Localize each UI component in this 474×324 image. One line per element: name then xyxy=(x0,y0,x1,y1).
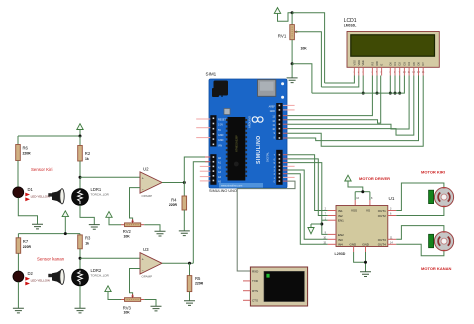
wire xyxy=(291,13,293,25)
pin stub xyxy=(200,180,211,182)
wire xyxy=(18,198,37,224)
wire LDR2 node to U3 plus input xyxy=(80,257,140,259)
wire xyxy=(291,40,293,64)
svg-text:Sensor Kiri: Sensor Kiri xyxy=(31,167,52,172)
wire VDD xyxy=(321,76,358,88)
op-amp U3 xyxy=(140,247,162,279)
svg-text:SIM1: SIM1 xyxy=(206,72,217,77)
svg-text:TORCH_LDR: TORCH_LDR xyxy=(91,193,110,197)
svg-text:IN1: IN1 xyxy=(338,209,343,213)
junction U2 output xyxy=(183,181,186,184)
wire xyxy=(17,136,19,145)
wire xyxy=(79,249,81,269)
svg-text:VSS: VSS xyxy=(351,209,357,213)
wire xyxy=(17,234,19,238)
OPAMP-U2-SECTION xyxy=(80,157,210,238)
power terminal motor driver xyxy=(345,175,363,192)
svg-text:220R: 220R xyxy=(195,282,204,286)
wire bus sensor kiri xyxy=(18,135,80,137)
header digital (right top) xyxy=(269,103,283,140)
pin stub xyxy=(283,137,288,139)
wire EN1 tap xyxy=(322,219,328,221)
svg-text:RV2: RV2 xyxy=(123,229,132,234)
svg-text:VSS: VSS xyxy=(352,60,356,65)
resistor R5 xyxy=(187,276,203,292)
power terminal RV1 xyxy=(274,8,292,22)
resistor R3 xyxy=(78,235,91,249)
wire E to Arduino 12 xyxy=(288,76,381,124)
svg-text:U3: U3 xyxy=(143,247,149,252)
wire U3 output xyxy=(162,262,193,264)
pin stub xyxy=(283,119,288,121)
L293D-SECTION xyxy=(283,155,396,277)
svg-text:D1: D1 xyxy=(28,187,34,192)
svg-text:RXD: RXD xyxy=(252,269,259,273)
pin stub xyxy=(196,118,210,120)
svg-text:OUT4: OUT4 xyxy=(378,243,386,247)
svg-text:U1: U1 xyxy=(389,196,395,201)
pin stub D1 xyxy=(283,176,295,178)
power jack xyxy=(212,81,228,98)
resistor R2 xyxy=(78,146,91,162)
svg-text:D0: D0 xyxy=(388,62,392,66)
wire ground bus xyxy=(312,76,405,94)
LED D1 xyxy=(13,187,50,201)
wire LDR1 node to U2 plus input xyxy=(80,176,140,178)
RV1-SECTION xyxy=(274,8,324,94)
reset button xyxy=(224,109,230,115)
wire VSS VS bus xyxy=(355,191,370,193)
Arduino Uno board SIM1 xyxy=(209,79,287,188)
ground xyxy=(89,225,100,230)
pin stub xyxy=(283,180,288,182)
wire D6 to Arduino 8 xyxy=(288,76,419,141)
wire xyxy=(354,192,356,200)
svg-text:SIMULINO UNO: SIMULINO UNO xyxy=(209,189,237,193)
wire Arduino D3 to IN3 xyxy=(288,170,328,239)
motor driver U1 L293D body xyxy=(323,197,393,247)
svg-text:ARDUINO: ARDUINO xyxy=(248,116,252,128)
svg-text:E: E xyxy=(380,64,384,66)
header digital (right bottom) xyxy=(274,150,283,185)
svg-text:10K: 10K xyxy=(124,311,131,315)
pin stub xyxy=(200,176,211,178)
pin stub xyxy=(196,127,210,129)
wire xyxy=(17,282,19,308)
LCD pin labels xyxy=(352,60,425,66)
svg-text:3.3V: 3.3V xyxy=(218,124,223,127)
SENSOR-KANAN-SECTION xyxy=(13,211,110,313)
wire D5 to Arduino 10 xyxy=(288,76,414,136)
USB connector xyxy=(258,80,276,97)
ARDUINO-SECTION xyxy=(196,72,294,194)
header analog (left bottom) xyxy=(210,154,221,185)
svg-text:TORCH_LDR: TORCH_LDR xyxy=(91,274,110,278)
wire RW xyxy=(376,76,378,94)
wire D4 to Arduino 11 xyxy=(288,76,410,130)
junction xyxy=(79,135,82,138)
motor kiri terminal block xyxy=(429,190,434,203)
svg-text:L293D: L293D xyxy=(335,252,346,256)
svg-text:RW: RW xyxy=(375,61,379,66)
pin stub xyxy=(283,115,288,117)
svg-text:IN2: IN2 xyxy=(338,214,343,218)
pin stub xyxy=(283,169,288,171)
wire xyxy=(183,183,185,197)
pin stub EN1 xyxy=(328,219,336,221)
mounting holes xyxy=(281,82,284,85)
svg-text:OUT2: OUT2 xyxy=(378,214,386,218)
torch lamp sensor kiri xyxy=(48,189,64,204)
wire OUT3 to motor kanan xyxy=(396,226,444,240)
svg-text:OPAMP: OPAMP xyxy=(142,194,153,198)
pin stub IN3 xyxy=(328,238,336,240)
pin stub GND xyxy=(283,109,295,111)
wire xyxy=(79,161,81,189)
TERMINAL-SECTION xyxy=(237,181,307,306)
junction xyxy=(376,92,379,95)
wire to Arduino A1 xyxy=(193,162,210,264)
svg-text:D2: D2 xyxy=(398,62,402,66)
wire OUT4 to motor kanan xyxy=(396,244,444,256)
svg-text:GND: GND xyxy=(218,134,224,137)
svg-text:MOTOR KANAN: MOTOR KANAN xyxy=(421,266,451,271)
OPAMP-U3-SECTION xyxy=(80,162,210,315)
junction xyxy=(291,62,294,65)
svg-text:OPAMP: OPAMP xyxy=(142,275,153,279)
svg-text:D3: D3 xyxy=(402,62,406,66)
svg-text:220R: 220R xyxy=(23,245,32,249)
wire Arduino D5 to EN2 xyxy=(288,163,328,235)
ground xyxy=(75,308,86,313)
pin stub OUT1 xyxy=(388,210,396,212)
ground xyxy=(179,231,190,236)
svg-text:1k: 1k xyxy=(85,241,89,245)
wire xyxy=(17,161,19,188)
svg-text:VS: VS xyxy=(366,209,370,213)
svg-text:TXD: TXD xyxy=(252,279,259,283)
resistor R6 xyxy=(16,145,31,161)
wire Arduino D0 to terminal RXD xyxy=(237,181,295,271)
svg-text:LDR1: LDR1 xyxy=(91,187,102,192)
power terminal +5V sensor kiri xyxy=(77,124,83,136)
potentiometer RV3 xyxy=(121,294,144,315)
ground xyxy=(360,272,371,277)
svg-text:OUT3: OUT3 xyxy=(378,238,386,242)
svg-text:EN2: EN2 xyxy=(338,233,344,237)
svg-text:R2: R2 xyxy=(85,151,91,156)
junction node LDR2 xyxy=(79,257,82,260)
svg-text:R5: R5 xyxy=(195,276,201,281)
wire D7 to Arduino 9 xyxy=(288,76,424,147)
pin stub VSS xyxy=(354,200,356,206)
potentiometer RV1 xyxy=(278,25,307,51)
svg-text:VDD: VDD xyxy=(357,60,361,66)
power terminal RV2 xyxy=(106,212,121,225)
junction xyxy=(320,223,323,226)
SENSOR-KIRI-SECTION xyxy=(13,124,110,230)
pin stub xyxy=(200,170,211,172)
wire OUT1 to motor kiri xyxy=(396,183,444,211)
LDR2 xyxy=(72,268,110,286)
wire xyxy=(17,253,19,271)
wire U2 output xyxy=(162,182,184,184)
svg-text:R7: R7 xyxy=(23,239,29,244)
wire RS to Arduino 13 xyxy=(288,76,373,116)
MOTORS-SECTION xyxy=(396,170,453,271)
svg-text:Sensor kanan: Sensor kanan xyxy=(37,257,65,262)
wire GND pins xyxy=(354,247,366,272)
junction xyxy=(389,92,392,95)
wire xyxy=(183,210,185,231)
pin stub A1 red tip xyxy=(205,161,210,163)
junction U3 output xyxy=(188,262,191,265)
pin stub xyxy=(283,128,288,130)
junction node LDR1 xyxy=(79,176,82,179)
ATmega328 chip xyxy=(226,117,247,181)
svg-text:220R: 220R xyxy=(23,152,32,156)
svg-text:220R: 220R xyxy=(169,203,178,207)
wire VEE xyxy=(362,76,364,94)
wire OUT2 to motor kiri xyxy=(396,207,444,216)
motor kanan terminal block xyxy=(429,234,434,247)
power terminal RV3 xyxy=(105,286,121,300)
wire RV3 to ground xyxy=(144,300,156,307)
wire to Arduino A0 xyxy=(184,157,210,183)
wire to VSS column xyxy=(292,13,325,83)
svg-text:RESET: RESET xyxy=(218,118,227,121)
wire U2 minus input to RV2 wiper xyxy=(130,188,141,220)
svg-text:R4: R4 xyxy=(171,198,177,203)
pin stub xyxy=(283,162,288,164)
pin stub OUT2 xyxy=(388,215,396,217)
svg-text:VIN: VIN xyxy=(218,144,222,147)
wire RV2 to ground xyxy=(144,225,160,232)
svg-text:VEE: VEE xyxy=(361,60,365,65)
svg-text:RS: RS xyxy=(370,62,374,66)
resistor R4 xyxy=(169,196,187,210)
wire to LCD ground bus xyxy=(292,64,312,93)
svg-text:5V: 5V xyxy=(218,129,221,132)
wire RV1 wiper to VDD column xyxy=(295,32,321,87)
pin stub RTS xyxy=(243,290,250,292)
ground xyxy=(32,224,43,229)
svg-text:D4: D4 xyxy=(407,62,411,66)
pin stub xyxy=(283,158,288,160)
wire Arduino D6 to IN2 xyxy=(288,159,328,216)
ground xyxy=(184,301,195,306)
svg-text:CTS: CTS xyxy=(252,299,258,303)
wire bus sensor kanan xyxy=(18,233,80,235)
svg-text:DIGITAL: DIGITAL xyxy=(265,152,269,162)
motor kanan xyxy=(434,232,453,251)
svg-text:GND: GND xyxy=(270,110,276,113)
svg-text:ATMEGA328P: ATMEGA328P xyxy=(235,135,239,152)
LCD LM016L body xyxy=(347,32,439,68)
ground xyxy=(13,308,24,313)
wire D1 xyxy=(394,76,396,94)
svg-text:D6: D6 xyxy=(417,62,421,66)
pin stub xyxy=(196,137,210,139)
pin stub AREF xyxy=(283,104,295,106)
svg-text:R3: R3 xyxy=(85,235,91,240)
wire Arduino D2 to IN4 xyxy=(288,174,328,245)
LCD-SECTION xyxy=(283,18,439,147)
svg-text:D1: D1 xyxy=(393,62,397,66)
svg-text:www.simulino.com: www.simulino.com xyxy=(221,184,242,188)
junction xyxy=(398,92,401,95)
svg-text:RTS: RTS xyxy=(252,289,258,293)
svg-text:D7: D7 xyxy=(421,62,425,66)
pin stub xyxy=(283,154,288,156)
pin stub TXD xyxy=(243,280,250,282)
junction xyxy=(291,11,294,14)
junction xyxy=(362,92,365,95)
power terminal +5V sensor kanan xyxy=(62,211,68,234)
pin stub VS xyxy=(369,200,371,206)
LDR1 xyxy=(72,187,110,205)
pin stub EN2 xyxy=(328,233,336,235)
svg-text:D2: D2 xyxy=(28,271,34,276)
pin stub xyxy=(283,165,295,167)
wire D2 xyxy=(399,76,401,94)
motor kiri xyxy=(434,188,453,207)
svg-text:10K: 10K xyxy=(301,46,308,50)
pin stub A0 red tip xyxy=(205,156,210,158)
pin stub OUT4 xyxy=(388,243,396,245)
ground xyxy=(155,231,166,236)
wire D0 xyxy=(389,76,391,94)
resistor R7 xyxy=(16,238,31,254)
svg-text:LED-YELLOW: LED-YELLOW xyxy=(31,279,51,283)
wire VSS xyxy=(325,76,355,84)
svg-text:SIMULINO: SIMULINO xyxy=(256,135,262,164)
header power (left top) xyxy=(210,115,226,147)
ground xyxy=(287,78,298,83)
wire LDR1 to ground xyxy=(80,205,94,224)
pin stub xyxy=(283,123,288,125)
junction xyxy=(364,261,367,264)
pin stub IN4 xyxy=(328,243,336,245)
wire xyxy=(189,263,191,275)
svg-text:LDR2: LDR2 xyxy=(91,268,102,273)
svg-text:MOTOR KIRI: MOTOR KIRI xyxy=(421,170,445,175)
svg-text:LED-YELLOW: LED-YELLOW xyxy=(31,195,51,199)
Arduino logo xyxy=(252,117,263,122)
svg-text:EN1: EN1 xyxy=(338,219,344,223)
svg-text:U2: U2 xyxy=(143,167,149,172)
wire xyxy=(79,234,81,235)
svg-text:IN3: IN3 xyxy=(338,238,343,242)
svg-text:10K: 10K xyxy=(124,234,131,238)
pin stub IN2 xyxy=(328,215,336,217)
svg-text:OUT1: OUT1 xyxy=(378,209,386,213)
svg-text:RV1: RV1 xyxy=(278,33,287,38)
svg-text:GND: GND xyxy=(362,242,370,246)
op-amp U2 xyxy=(140,167,162,198)
svg-text:1k: 1k xyxy=(85,157,89,161)
pin stub IN1 xyxy=(328,210,336,212)
svg-text:MOTOR DRIVER: MOTOR DRIVER xyxy=(359,176,390,181)
pin stub xyxy=(283,132,288,134)
junction xyxy=(64,232,67,235)
wire Arduino D7 to IN1 xyxy=(288,155,328,211)
torch lamp sensor kanan xyxy=(48,269,64,284)
LCD pin stubs xyxy=(354,67,423,75)
LCD pin numbers xyxy=(353,71,425,74)
ground terminal xyxy=(308,224,322,234)
svg-text:D5: D5 xyxy=(412,62,416,66)
wire xyxy=(291,64,293,78)
pin stub OUT3 xyxy=(388,238,396,240)
wire xyxy=(79,136,81,146)
pin stub xyxy=(283,173,288,175)
svg-text:LM016L: LM016L xyxy=(344,24,357,28)
pin stub CTS xyxy=(243,299,250,301)
virtual terminal xyxy=(250,267,307,306)
wire U3 minus input to RV3 wiper xyxy=(130,269,141,295)
svg-text:GND: GND xyxy=(350,242,358,246)
svg-text:R6: R6 xyxy=(23,146,29,151)
wire xyxy=(369,192,371,200)
potentiometer RV2 xyxy=(121,219,144,238)
svg-text:IN4: IN4 xyxy=(338,243,343,247)
wire LDR2 to ground xyxy=(79,286,81,308)
junction xyxy=(394,92,397,95)
ground xyxy=(151,306,162,311)
LED D2 xyxy=(13,271,50,285)
svg-text:GND: GND xyxy=(218,139,224,142)
pin stub xyxy=(200,165,211,167)
wire xyxy=(189,292,191,301)
junction xyxy=(361,190,364,193)
svg-text:AREF: AREF xyxy=(269,105,276,108)
